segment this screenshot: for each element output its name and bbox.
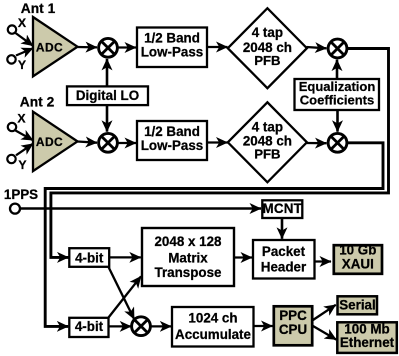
svg-text:4-bit: 4-bit — [75, 319, 104, 334]
PFB 2: 4 tap 2048 ch polyphase filter bank (Ant 2) — [228, 102, 307, 182]
wire 4-bit 2 to mixer M5 — [109, 325, 131, 327]
wire 4-bit 1 diagonal to mixer M5 — [109, 267, 135, 319]
Packet Header block — [253, 240, 315, 279]
svg-text:4-bit: 4-bit — [75, 250, 104, 265]
svg-text:10 Gb: 10 Gb — [339, 243, 376, 258]
Equalization Coefficients block — [295, 79, 380, 110]
ADC A2 (Ant 2) — [33, 112, 78, 171]
svg-text:MCNT: MCNT — [263, 201, 303, 216]
svg-text:Ant 1: Ant 1 — [21, 1, 56, 16]
wire filter 2 to PFB 2 — [207, 141, 228, 143]
svg-text:X: X — [17, 111, 26, 125]
wire Accumulate to PPC CPU — [254, 325, 273, 327]
wire mixer M4 to 4-bit quantizer 2 (right, down, left, down) — [45, 143, 383, 327]
wire PFB 1 to mixer M2 — [307, 47, 327, 48]
wire Y input to ADC2 — [16, 144, 33, 156]
wire filter 1 to PFB 1 — [207, 46, 228, 48]
4-bit quantizer block 2 — [69, 318, 108, 337]
half-band low-pass filter block (Ant 1) — [137, 28, 207, 68]
svg-text:X: X — [18, 16, 27, 30]
MCNT block — [262, 200, 302, 218]
svg-text:Accumulate: Accumulate — [175, 327, 251, 342]
input terminal 1PPS — [10, 204, 20, 214]
wire Packet Header to 10 Gb XAUI — [315, 260, 332, 262]
svg-text:2048 x 128: 2048 x 128 — [154, 234, 222, 249]
mixer M1 (Ant 1 LO mixer) — [99, 38, 118, 57]
svg-text:Serial: Serial — [339, 297, 375, 312]
input terminal X (Ant 1) — [8, 25, 16, 33]
svg-text:Transpose: Transpose — [155, 265, 222, 280]
svg-text:ADC: ADC — [36, 135, 63, 149]
10 Gb XAUI interface block — [334, 243, 382, 274]
ADC A1 (Ant 1) — [33, 17, 78, 76]
svg-text:Y: Y — [18, 58, 26, 72]
svg-text:Header: Header — [261, 260, 307, 275]
svg-text:Ant 2: Ant 2 — [20, 95, 55, 110]
svg-text:Y: Y — [18, 158, 26, 172]
wire Digital LO down to mixer M3 — [106, 105, 109, 132]
svg-text:Coefficients: Coefficients — [300, 92, 374, 107]
wire mixer M1 to half-band filter 1 — [118, 46, 136, 48]
svg-text:4 tap: 4 tap — [252, 119, 283, 134]
svg-text:PFB: PFB — [254, 53, 280, 68]
wire Equalization Coefficients up to mixer M2 — [336, 60, 339, 79]
input terminal Y (Ant 2) — [7, 155, 15, 163]
svg-text:4 tap: 4 tap — [252, 25, 283, 40]
svg-text:ADC: ADC — [36, 40, 63, 54]
wire ADC1 to mixer M1 — [78, 46, 98, 49]
wire X input to ADC2 — [16, 131, 34, 141]
PPC CPU block — [274, 306, 312, 345]
svg-text:PFB: PFB — [254, 147, 280, 162]
1024 ch Accumulate block — [172, 307, 254, 347]
2048 x 128 Matrix Transpose block — [142, 228, 234, 286]
svg-text:Ethernet: Ethernet — [340, 335, 395, 350]
wire PFB 2 to mixer M4 — [307, 142, 327, 144]
wire ADC2 to mixer M3 — [78, 142, 98, 143]
mixer M4 (Ant 2 equalization multiplier) — [328, 133, 347, 152]
wire mixer M2 to 4-bit quantizer 1 (right, down, left, down) — [51, 49, 389, 258]
4-bit quantizer block 1 — [69, 248, 109, 267]
mixer M3 (Ant 2 LO mixer) — [99, 133, 118, 152]
wire MCNT down to Packet Header — [281, 218, 284, 239]
mixer M5 (correlator multiplier) — [132, 317, 151, 336]
wire PPC CPU to 100 Mb Ethernet — [313, 326, 336, 340]
input terminal X (Ant 2) — [8, 123, 16, 131]
input terminal Y (Ant 1) — [7, 55, 15, 63]
svg-text:1PPS: 1PPS — [4, 187, 38, 202]
wire Digital LO up to mixer M1 — [106, 59, 109, 87]
wire Y input to ADC1 — [16, 48, 33, 55]
svg-text:Low-Pass: Low-Pass — [141, 138, 204, 153]
wire PPC CPU to Serial — [313, 305, 336, 320]
wire 4-bit 1 to Matrix Transpose — [110, 256, 141, 258]
mixer M2 (Ant 1 equalization multiplier) — [328, 39, 347, 58]
svg-text:Packet: Packet — [262, 244, 306, 259]
wire 1PPS to MCNT — [21, 207, 262, 210]
svg-text:CPU: CPU — [279, 322, 307, 337]
wire mixer M5 to Accumulate — [151, 325, 171, 327]
Serial interface block — [338, 296, 378, 314]
svg-text:1024 ch: 1024 ch — [188, 311, 237, 326]
svg-text:Low-Pass: Low-Pass — [141, 44, 204, 59]
svg-text:Digital LO: Digital LO — [76, 88, 139, 103]
PFB 1: 4 tap 2048 ch polyphase filter bank (Ant 1) — [228, 8, 307, 88]
wire Matrix Transpose to Packet Header — [234, 256, 252, 258]
wire mixer M3 to half-band filter 2 — [118, 142, 136, 144]
100 Mb Ethernet interface block — [337, 322, 397, 353]
svg-text:PPC: PPC — [279, 308, 307, 323]
Digital LO block — [67, 86, 148, 105]
half-band low-pass filter block (Ant 2) — [137, 121, 207, 160]
svg-text:Matrix: Matrix — [168, 250, 208, 265]
svg-text:XAUI: XAUI — [342, 257, 374, 272]
wire 4-bit 2 diagonal to Matrix Transpose — [109, 276, 142, 317]
wire X input to ADC1 — [16, 33, 34, 46]
wire Equalization Coefficients down to mixer M4 — [336, 110, 339, 132]
